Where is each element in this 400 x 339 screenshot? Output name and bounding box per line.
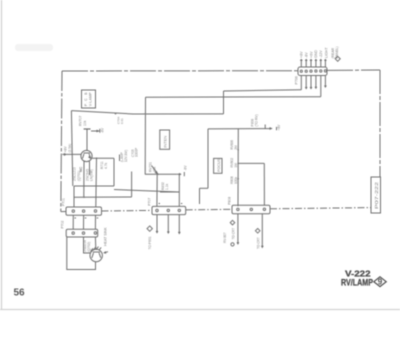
wire bus y89.5 — [224, 90, 302, 91]
P706 pin 6 — [324, 70, 326, 72]
junction on x238 lower — [237, 163, 239, 165]
P808 pin 2 — [250, 208, 252, 210]
svg-text:P702: P702 — [61, 220, 65, 228]
svg-text:46k: 46k — [153, 166, 157, 172]
svg-text:-8V: -8V — [101, 127, 105, 133]
svg-text:P707: P707 — [147, 198, 151, 206]
transistor Q701 — [81, 150, 92, 161]
svg-text:12V.1W): 12V.1W) — [124, 150, 128, 162]
RV701 wiper arrow — [152, 166, 158, 174]
sheet diamond 9 — [374, 277, 386, 287]
P701 pin 2 — [82, 210, 84, 212]
wire y188.3 stub — [200, 187, 209, 189]
P706 pin 4 — [315, 70, 317, 72]
ref diamond below P808 b — [255, 229, 260, 234]
potentiometer RV701 element — [145, 173, 177, 175]
wire pin4 up — [315, 60, 317, 68]
connector P701 body — [66, 207, 102, 215]
up tick on y128.7 — [264, 125, 266, 129]
svg-text:(2.5A): (2.5A) — [68, 144, 72, 153]
wire Q702 emitter loop — [67, 237, 96, 270]
wire pin6 down arrow — [325, 76, 327, 88]
svg-text:(Q702): (Q702) — [87, 242, 91, 252]
P707 pin 2 — [167, 209, 169, 211]
svg-text:+6V: +6V — [309, 51, 313, 58]
svg-text:P07-222: P07-222 — [374, 181, 379, 209]
wire pin6 up — [324, 60, 326, 68]
wire y191 horizontal — [114, 190, 179, 193]
wire x208 drop — [207, 129, 209, 188]
pin ticks above P707 — [159, 203, 183, 205]
wire Q701 aux down — [89, 161, 91, 175]
wire P808 pin3 down arrow — [261, 214, 263, 248]
svg-text:(TO RV): (TO RV) — [254, 114, 258, 126]
svg-text:NC: NC — [79, 166, 83, 172]
junction dot x115 y113.6 — [115, 113, 117, 115]
sheet ref diamond top right — [335, 56, 340, 61]
P701 pin 3 — [94, 210, 96, 212]
svg-text:+8V: +8V — [300, 51, 304, 58]
svg-text:-8V: -8V — [305, 52, 309, 58]
svg-text:HEAT SINK: HEAT SINK — [103, 227, 107, 246]
P702 pin 2 — [82, 232, 84, 234]
connector P808 body — [232, 205, 270, 213]
outer boundary top edge right of connector — [327, 69, 380, 71]
svg-text:10k: 10k — [83, 120, 87, 126]
P707 pin 1 — [156, 209, 158, 211]
outer boundary bottom edge seg1 — [61, 211, 66, 213]
board ref label box right — [371, 177, 381, 213]
wire x131.6 riser — [131, 172, 133, 198]
boxed label INTEN — [160, 130, 170, 149]
faint scan smudge top left — [15, 44, 53, 51]
outer boundary left edge — [61, 71, 62, 212]
svg-text:V-LAMP: V-LAMP — [89, 92, 93, 107]
wire x199.5 drop — [199, 188, 201, 204]
outer boundary right edge — [379, 70, 381, 177]
svg-text:LIGHT: LIGHT — [325, 47, 329, 58]
wire x74 drop — [73, 186, 75, 207]
junction on x238 — [237, 149, 239, 151]
ref diamond below P808 a — [230, 220, 235, 225]
boxed label FOCUS — [214, 158, 222, 173]
wire y197 horizontal — [74, 196, 132, 198]
wire P707 pin1 down arrow — [156, 215, 158, 233]
wire x145 drop from bus — [144, 97, 146, 174]
svg-text:9: 9 — [378, 278, 383, 287]
wire +8V into Q701 base — [62, 153, 81, 155]
pcb label box V-LAMP — [82, 90, 96, 108]
outer boundary bottom edge seg2 — [102, 209, 153, 212]
wire pin1 up — [300, 60, 302, 68]
svg-text:TO P601: TO P601 — [148, 236, 152, 249]
wire pin1 down to bus — [300, 76, 302, 90]
P702 pin 3 — [94, 232, 96, 234]
wire P707 pin2 down arrow — [167, 215, 169, 233]
wires P701 to P702 — [73, 215, 95, 229]
svg-text:-22V: -22V — [319, 50, 323, 58]
outer boundary bottom edge seg3 — [186, 208, 232, 211]
wire y128.7 horizontal to arrow P808 — [208, 128, 272, 130]
wire pin5 up — [320, 60, 322, 68]
connector P702 body — [66, 229, 98, 237]
P808 pin 3 — [263, 208, 265, 210]
svg-text:100k: 100k — [234, 177, 238, 184]
svg-text:LN(SW): LN(SW) — [90, 169, 94, 181]
svg-text:P808: P808 — [228, 197, 232, 205]
wire x264.4 drop — [263, 163, 265, 205]
wire P808 pin1 down arrow — [237, 214, 239, 244]
svg-text:1000P: 1000P — [135, 148, 139, 157]
P808 pin 1 — [237, 208, 239, 210]
transistor Q702 power — [90, 249, 102, 261]
wire x238 vertical — [237, 129, 239, 207]
P701 pin 1 — [72, 210, 74, 212]
wire y186 horizontal — [74, 185, 114, 187]
P702 pin 1 — [72, 232, 74, 234]
svg-text:P701: P701 — [62, 198, 66, 206]
wire x96.5 down — [95, 158, 98, 207]
junction on x238 lowest — [237, 178, 239, 180]
wire Q701 collector right — [92, 157, 114, 159]
lamp tick — [119, 155, 121, 162]
svg-text:RV-807: RV-807 — [223, 232, 227, 243]
wire x114 down — [113, 158, 115, 186]
RV701 right arrow out — [177, 173, 181, 175]
svg-text:+8V: +8V — [277, 124, 281, 131]
wire y163.4 horizontal — [238, 162, 264, 164]
junction dot x145 y114 — [144, 113, 146, 115]
wire pin5 down to bus — [320, 76, 322, 97]
svg-text:1M: 1M — [234, 163, 238, 168]
capacitor plate above Q701 — [84, 128, 91, 130]
wire pin2 up — [305, 60, 307, 68]
svg-text:RV/LAMP: RV/LAMP — [341, 278, 373, 288]
connector P707 body — [152, 206, 186, 214]
svg-text:1.1k: 1.1k — [165, 183, 169, 190]
wire RV701 wiper to P707 pin1 — [156, 174, 158, 206]
supply tick right of RV701 — [183, 172, 185, 176]
svg-text:INTEN: INTEN — [162, 136, 167, 148]
P706 pin 1 — [300, 70, 302, 72]
P706 pin 5 — [320, 70, 322, 72]
arrow stub right of cap — [91, 129, 100, 133]
wire P702 pin3 to Q702 top — [94, 237, 96, 249]
wire RV701 right leg down — [178, 174, 180, 206]
svg-text:-8V: -8V — [184, 165, 188, 171]
junction dot x84 y197 — [83, 196, 85, 198]
svg-text:TO CRT: TO CRT — [256, 237, 260, 249]
svg-text:2M: 2M — [234, 145, 238, 150]
svg-text:4.7k: 4.7k — [104, 162, 108, 169]
svg-text:P706: P706 — [294, 76, 298, 84]
outer boundary top edge — [62, 70, 298, 72]
svg-text:FOCUS: FOCUS — [217, 158, 221, 172]
wire cap to Q701 — [86, 129, 88, 151]
resistor R802 loop bottom — [160, 191, 179, 193]
wire pin2 down arrow — [305, 76, 307, 89]
pin number ticks — [75, 217, 99, 219]
svg-text:56: 56 — [14, 288, 26, 299]
wire pin3 down arrow — [310, 76, 312, 89]
wire drop x223.5 — [223, 91, 225, 114]
tick right of arrow — [276, 127, 278, 130]
P707 pin 3 — [178, 209, 180, 211]
P706 pin 3 — [310, 70, 312, 72]
ref diamond below P707 — [147, 226, 152, 231]
heat sink hatching — [91, 247, 102, 252]
wire left branch x71 down — [71, 111, 72, 186]
wire bus y96.7 — [146, 96, 321, 99]
junction at x96.5 — [96, 157, 98, 159]
svg-text:0.01: 0.01 — [120, 118, 124, 124]
svg-text:TO CRT: TO CRT — [231, 228, 235, 240]
arrow pointing at Q702 — [104, 252, 108, 254]
P706 pin 2 — [305, 70, 307, 72]
wire P702 pin2 to Q702 base — [84, 237, 91, 253]
outer boundary bottom edge seg4 — [270, 208, 371, 209]
wire pin4 down arrow — [315, 76, 317, 89]
connector P706 body — [298, 67, 327, 76]
wire pin3 up — [310, 60, 312, 68]
wire P707 pin3 down arrow — [178, 215, 180, 234]
wire Q701 emitter down — [83, 161, 85, 197]
circle mark below TO CRT c — [231, 243, 234, 246]
svg-text:GND: GND — [314, 50, 318, 58]
wire bus y114 — [71, 111, 223, 114]
